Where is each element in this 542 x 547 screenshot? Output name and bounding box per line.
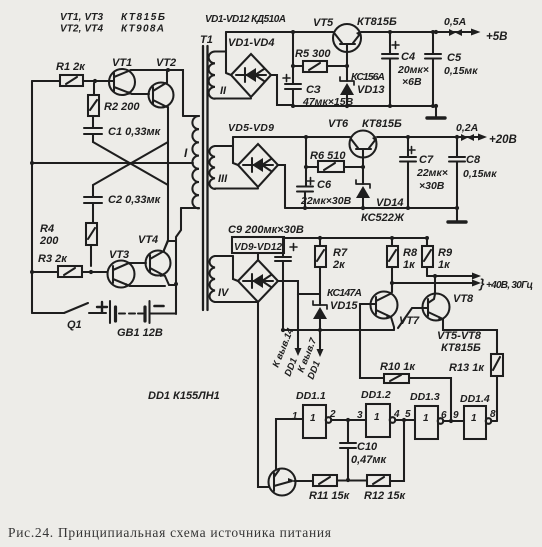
arrow to pin7 xyxy=(296,330,324,381)
svg-text:КС147А: КС147А xyxy=(327,287,362,299)
zener VD14 xyxy=(356,167,405,224)
svg-text:22мк×: 22мк× xyxy=(416,167,448,179)
wire bridge3 minus down to sync transistor xyxy=(258,302,269,487)
svg-text:VD13: VD13 xyxy=(357,84,385,96)
svg-text:КТ815Б: КТ815Б xyxy=(441,342,481,354)
gnd rail 5V xyxy=(293,105,436,107)
output 40V lines xyxy=(390,273,533,292)
wire bridge3 plus xyxy=(278,281,320,294)
svg-text:R7: R7 xyxy=(333,247,348,259)
resistor R13 xyxy=(449,354,503,421)
svg-text:С10: С10 xyxy=(357,441,378,453)
svg-text:R10 1к: R10 1к xyxy=(380,361,416,373)
svg-text:+40В, 30Гц: +40В, 30Гц xyxy=(486,280,533,291)
junction dots xyxy=(30,161,34,165)
svg-text:VT2, VT4: VT2, VT4 xyxy=(60,24,103,35)
svg-text:0,15мк: 0,15мк xyxy=(463,168,497,180)
resistor R6 xyxy=(306,150,363,172)
resistor R5 xyxy=(293,48,347,72)
gate DD1.3 xyxy=(410,391,464,439)
top +12V rail xyxy=(226,31,436,33)
svg-text:III: III xyxy=(218,173,228,185)
svg-text:DD1.1: DD1.1 xyxy=(296,390,326,402)
svg-text:3: 3 xyxy=(357,410,363,421)
svg-text:1: 1 xyxy=(292,411,298,422)
svg-text:VT2: VT2 xyxy=(156,57,176,69)
battery GB1 xyxy=(97,301,176,339)
svg-text:IV: IV xyxy=(218,287,230,299)
svg-text:9: 9 xyxy=(453,410,459,421)
svg-text:R11 15к: R11 15к xyxy=(309,490,351,502)
gate DD1.4 xyxy=(460,393,497,439)
svg-text:VT4: VT4 xyxy=(138,234,158,246)
capacitor C4 xyxy=(382,32,429,106)
svg-text:С4: С4 xyxy=(401,51,415,63)
wire VT3 collector to VT4 base xyxy=(129,262,146,264)
header text transistors xyxy=(60,12,165,35)
svg-text:Рис.24. Принципиальная схема: Рис.24. Принципиальная схема источника п… xyxy=(8,525,332,540)
winding III xyxy=(209,122,274,189)
svg-text:DD1.3: DD1.3 xyxy=(410,391,440,403)
+20V rail xyxy=(233,136,457,138)
sync transistor xyxy=(258,469,313,496)
winding I primary xyxy=(181,116,199,208)
zener VD13 xyxy=(340,66,385,106)
svg-text:С6: С6 xyxy=(317,179,332,191)
wire bridge1 dc+ riser xyxy=(226,32,231,75)
svg-text:Q1: Q1 xyxy=(67,319,82,331)
svg-text:С8: С8 xyxy=(466,154,481,166)
svg-text:}: } xyxy=(479,276,485,291)
wire bridge1 minus to gnd rail xyxy=(271,75,293,105)
resistor R9 xyxy=(422,238,453,276)
svg-text:R6 510: R6 510 xyxy=(310,150,346,162)
header text diodes xyxy=(205,14,286,25)
transistor VT7 xyxy=(360,283,420,330)
svg-text:+20В: +20В xyxy=(489,134,517,146)
node base VT1 xyxy=(93,79,97,83)
resistor R11 xyxy=(309,475,367,502)
svg-text:R4: R4 xyxy=(40,223,54,235)
svg-text:С5: С5 xyxy=(447,52,462,64)
capacitor C8 xyxy=(449,137,497,208)
resistor R2 xyxy=(88,83,140,127)
wire VT1 emitter to VT2 base xyxy=(132,93,149,95)
zener VD15 xyxy=(313,287,362,330)
svg-text:VT5-VT8: VT5-VT8 xyxy=(437,330,482,342)
winding II xyxy=(209,52,251,99)
svg-text:Т1: Т1 xyxy=(200,34,213,46)
gate DD1.2 xyxy=(357,389,415,481)
resistor R7 xyxy=(315,236,348,305)
svg-text:1: 1 xyxy=(471,413,477,424)
resistor R4 xyxy=(39,223,97,266)
transistor VT2 xyxy=(149,57,177,108)
svg-text:КС156А: КС156А xyxy=(351,71,385,83)
svg-text:VT6: VT6 xyxy=(328,118,349,130)
box label VD9-VD12 xyxy=(232,237,284,253)
transformer T1 core xyxy=(200,34,213,310)
svg-text:VD15: VD15 xyxy=(330,300,358,312)
switch Q1 xyxy=(32,303,106,331)
svg-text:VT1: VT1 xyxy=(112,57,132,69)
svg-text:R9: R9 xyxy=(438,247,453,259)
svg-text:VT1, VT3: VT1, VT3 xyxy=(60,12,103,23)
svg-text:СЗ: СЗ xyxy=(306,84,321,96)
svg-text:20мк×: 20мк× xyxy=(397,64,429,76)
node VD14/R6 xyxy=(361,165,365,169)
svg-text:22мк×30В: 22мк×30В xyxy=(300,195,352,207)
capacitor C9 xyxy=(275,238,297,330)
svg-text:VT8: VT8 xyxy=(453,293,474,305)
svg-text:200: 200 xyxy=(39,235,59,247)
logic minus rail xyxy=(283,329,394,331)
wire battery right riser xyxy=(176,208,181,314)
svg-text:VD1-VD4: VD1-VD4 xyxy=(228,37,274,49)
svg-text:8: 8 xyxy=(490,409,496,420)
capacitor C1 xyxy=(84,126,162,142)
svg-text:2: 2 xyxy=(329,409,336,420)
svg-text:5: 5 xyxy=(405,409,411,420)
ground 2 xyxy=(448,206,466,222)
wire VT1 collector to top rail xyxy=(131,70,183,116)
wire left rail xyxy=(31,81,33,313)
wire VT2 emitter down xyxy=(164,107,168,250)
svg-text:R3 2к: R3 2к xyxy=(38,253,68,265)
svg-text:КТ815Б: КТ815Б xyxy=(357,16,397,28)
svg-text:VT3: VT3 xyxy=(109,249,129,261)
svg-text:С1 0,33мк: С1 0,33мк xyxy=(108,126,162,138)
svg-text:С7: С7 xyxy=(419,154,434,166)
svg-text:R8: R8 xyxy=(403,247,418,259)
svg-text:1: 1 xyxy=(374,412,380,423)
capacitor C5 xyxy=(425,32,478,106)
svg-text:×6В: ×6В xyxy=(402,76,422,88)
transistor VT4 xyxy=(138,234,171,277)
wire winding IV top lead xyxy=(233,256,238,281)
svg-text:VT5: VT5 xyxy=(313,17,334,29)
bridge rectifier VD5-VD8 xyxy=(238,144,278,187)
svg-text:VD9-VD12: VD9-VD12 xyxy=(234,242,282,253)
gate DD1.1 xyxy=(276,390,366,469)
capacitor C7 xyxy=(400,137,448,208)
bridge rectifier VD1-VD4 xyxy=(228,37,274,97)
svg-text:С9 200мк×30В: С9 200мк×30В xyxy=(228,224,304,236)
wire cross-coupling X xyxy=(93,142,168,185)
svg-text:DD1.4: DD1.4 xyxy=(460,393,490,405)
svg-text:0,2А: 0,2А xyxy=(456,122,478,134)
wire bridge2 dc+ riser xyxy=(233,137,238,165)
svg-text:R13 1к: R13 1к xyxy=(449,362,485,374)
svg-text:КТ815Б: КТ815Б xyxy=(362,118,402,130)
capacitor C2 xyxy=(84,185,162,223)
capacitor C10 xyxy=(340,418,388,482)
svg-text:С2 0,33мк: С2 0,33мк xyxy=(108,194,162,206)
resistor R8 xyxy=(387,238,418,292)
transistor VT8 xyxy=(398,276,497,354)
resistor R10 xyxy=(360,330,451,421)
svg-text:4: 4 xyxy=(393,409,400,420)
wire riser to R6/C6 xyxy=(305,137,307,186)
rail to DD power row xyxy=(284,237,427,239)
node VD13/R5 xyxy=(345,64,349,68)
svg-text:VD5-VD9: VD5-VD9 xyxy=(228,122,274,134)
gnd rail 20V xyxy=(285,207,457,209)
output +5V arrow xyxy=(434,16,508,43)
resistor R3 xyxy=(32,253,107,277)
resistor R12 xyxy=(364,475,406,502)
svg-text:×30В: ×30В xyxy=(419,180,445,192)
svg-text:R5 300: R5 300 xyxy=(295,48,331,60)
resistor R1 xyxy=(32,61,109,86)
svg-text:R2 200: R2 200 xyxy=(104,101,140,113)
transistor VT5 xyxy=(313,16,397,66)
svg-text:DD1.2: DD1.2 xyxy=(361,389,391,401)
ground xyxy=(427,104,445,118)
svg-text:0,15мк: 0,15мк xyxy=(444,65,478,77)
svg-text:1: 1 xyxy=(310,413,316,424)
wire unregulated riser xyxy=(292,32,294,83)
winding IV xyxy=(210,256,258,302)
transistor VT1 xyxy=(95,57,135,95)
svg-text:R1 2к: R1 2к xyxy=(56,61,86,73)
svg-text:6: 6 xyxy=(441,410,447,421)
label VT5-VT8 xyxy=(437,330,482,354)
output +20V arrow xyxy=(455,122,517,146)
wire VT4 collector riser xyxy=(164,241,176,250)
svg-text:2к: 2к xyxy=(332,259,346,271)
transistor VT6 xyxy=(328,118,402,167)
transistor VT3 xyxy=(108,249,135,288)
svg-text:1к: 1к xyxy=(403,259,416,271)
wire bridge2 minus xyxy=(278,165,285,208)
bridge rectifier VD9-VD12 xyxy=(238,253,278,302)
svg-text:R12 15к: R12 15к xyxy=(364,490,406,502)
arrow to pin14 xyxy=(271,294,302,378)
svg-text:1: 1 xyxy=(423,413,429,424)
svg-text:GB1 12В: GB1 12В xyxy=(117,327,163,339)
capacitor C6 xyxy=(297,178,352,209)
svg-text:DD1 К155ЛН1: DD1 К155ЛН1 xyxy=(148,390,220,402)
capacitor C3 xyxy=(283,75,354,109)
svg-text:II: II xyxy=(220,85,227,97)
svg-text:0,5А: 0,5А xyxy=(444,16,466,28)
svg-text:1к: 1к xyxy=(438,259,451,271)
svg-text:+5В: +5В xyxy=(486,31,507,43)
svg-text:КС522Ж: КС522Ж xyxy=(361,212,405,224)
svg-text:VD1-VD12 КД510А: VD1-VD12 КД510А xyxy=(205,14,286,25)
wire emitters to battery rail xyxy=(130,276,176,286)
wire center-tap rail xyxy=(32,162,193,164)
svg-text:0,47мк: 0,47мк xyxy=(351,454,388,466)
